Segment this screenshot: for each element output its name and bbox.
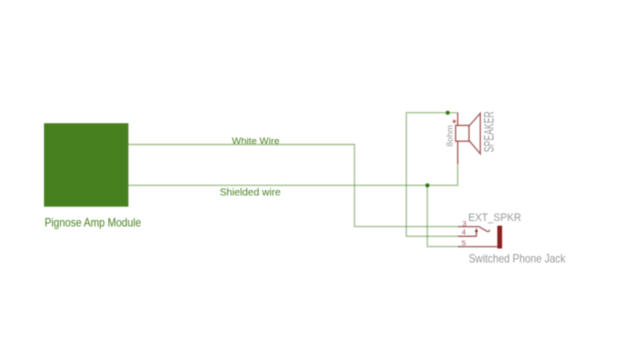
speaker SPEAKER symbol	[456, 113, 481, 164]
wire speaker top to jack pin 4	[406, 113, 458, 237]
svg-text:8ohm: 8ohm	[444, 125, 454, 147]
jack sleeve bar	[497, 226, 502, 249]
svg-text:Shielded wire: Shielded wire	[220, 188, 281, 199]
svg-text:White Wire: White Wire	[232, 136, 280, 146]
svg-text:3: 3	[462, 219, 466, 228]
svg-text:5: 5	[462, 239, 466, 248]
speaker plus sign	[452, 120, 456, 124]
svg-text:Pignose Amp Module: Pignose Amp Module	[45, 215, 142, 229]
jack switch arrow stem	[475, 232, 477, 237]
svg-text:Switched Phone Jack: Switched Phone Jack	[469, 252, 567, 266]
speaker box	[456, 125, 469, 141]
speaker cone	[469, 113, 480, 154]
svg-text:EXT_SPKR: EXT_SPKR	[468, 212, 521, 224]
jack switch arrow head	[475, 228, 478, 232]
svg-text:4: 4	[462, 228, 466, 237]
junction dot on shielded net	[425, 183, 429, 187]
junction dot on speaker top net	[446, 111, 450, 115]
jack pin 3 stub	[458, 226, 479, 228]
speaker top pin	[457, 113, 459, 126]
jack pin 4 stub	[458, 235, 476, 237]
jack tip spring hook	[479, 227, 490, 232]
Pignose Amp Module body	[44, 123, 128, 207]
speaker bottom pin	[457, 141, 459, 164]
wire shielded junction down to jack pin 5	[427, 185, 460, 246]
jack pin 5 stub / sleeve line	[458, 246, 497, 248]
wire Shielded wire net	[128, 164, 458, 186]
phone jack EXT_SPKR symbol	[458, 227, 497, 247]
wire White Wire net	[128, 145, 458, 227]
svg-text:SPEAKER: SPEAKER	[481, 111, 496, 152]
